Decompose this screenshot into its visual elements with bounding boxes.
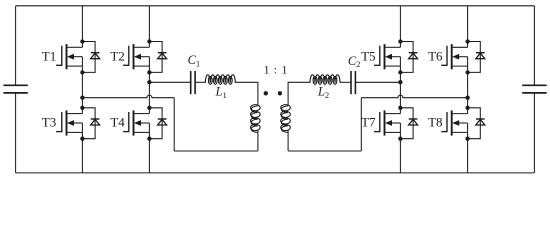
wire: leg T2/T4 middle segment	[148, 72, 150, 107]
wire: right DC-link bottom lead	[533, 93, 535, 173]
node: T6 source junction	[465, 70, 469, 74]
body diode of T5	[400, 42, 417, 73]
wire: leg T6/T8 upper segment	[467, 6, 469, 42]
body diode of T2	[149, 42, 166, 73]
capacitor C1	[191, 71, 195, 94]
wire: left DC-link top lead	[15, 6, 17, 85]
node: primary polarity dot	[264, 91, 268, 95]
wire: jog to right leg2 midpoint (hop over leg)	[361, 95, 467, 98]
transistor T8 (n-MOSFET)	[441, 108, 467, 139]
label 1:1 turns ratio	[264, 62, 288, 76]
node: T5 drain junction	[398, 39, 402, 43]
node: T4 drain junction	[147, 106, 151, 110]
transistor T3 (n-MOSFET)	[56, 108, 82, 139]
svg-text:T3: T3	[42, 115, 56, 130]
wire: right vertical jog up	[360, 98, 362, 151]
node: T7 drain junction	[398, 106, 402, 110]
inductor L1	[205, 75, 235, 85]
wire: leg T1/T3 upper segment	[81, 6, 83, 42]
svg-text:T5: T5	[361, 48, 375, 63]
body diode of T8	[468, 108, 485, 139]
svg-text:T6: T6	[428, 48, 443, 63]
svg-text:T7: T7	[361, 115, 376, 130]
node: left bridge leg1 midpoint	[80, 96, 84, 100]
body diode of T6	[468, 42, 485, 73]
svg-text::: :	[274, 62, 277, 76]
transistor T4 (n-MOSFET)	[123, 108, 149, 139]
wire: C2 to right bridge leg	[355, 81, 400, 83]
wire: left DC-link bottom lead	[15, 93, 17, 173]
node: T8 source junction	[465, 137, 469, 141]
body diode of T1	[82, 42, 99, 73]
svg-text:T8: T8	[428, 115, 442, 130]
body diode of T7	[400, 108, 417, 139]
node: T4 source junction	[147, 137, 151, 141]
svg-text:T2: T2	[110, 48, 124, 63]
wire: leg T5/T7 upper segment	[399, 6, 401, 42]
wire: leg T1/T3 middle segment	[81, 72, 83, 107]
wire: right DC-link top lead	[533, 6, 535, 85]
inductor L2	[310, 75, 340, 85]
node: T1 source junction	[80, 70, 84, 74]
transformer secondary winding	[281, 105, 291, 133]
wire: leg T2/T4 upper segment	[148, 6, 150, 42]
capacitor Cdc1 (left DC-link)	[3, 85, 27, 93]
node: T2 drain junction	[147, 39, 151, 43]
wire: leg T6/T8 middle segment	[467, 72, 469, 107]
svg-text:T4: T4	[110, 115, 125, 130]
node: T3 source junction	[80, 137, 84, 141]
wire: leg T6/T8 lower segment	[467, 139, 469, 173]
wire: leg T1/T3 lower segment	[81, 139, 83, 173]
wire: secondary top lead	[288, 82, 310, 105]
node: T7 source junction	[398, 137, 402, 141]
wire: L1 to transformer primary top	[235, 82, 258, 105]
body diode of T3	[82, 108, 99, 139]
wire: leg T5/T7 lower segment	[399, 139, 401, 173]
transistor T5 (n-MOSFET)	[374, 42, 400, 73]
node: right bridge leg2 midpoint	[465, 96, 469, 100]
transistor T1 (n-MOSFET)	[56, 42, 82, 73]
node: secondary polarity dot	[278, 91, 282, 95]
wire: leg T5/T7 middle segment	[399, 72, 401, 107]
node: T3 drain junction	[80, 106, 84, 110]
wire: jog to transformer primary bottom	[174, 150, 258, 152]
wire: secondary bottom lead	[287, 130, 289, 151]
wire: C1 to L1	[195, 81, 205, 83]
node: T1 drain junction	[80, 39, 84, 43]
transistor T2 (n-MOSFET)	[123, 42, 149, 73]
wire: transformer secondary bottom to jog	[288, 150, 361, 152]
node: left bridge leg2 output	[147, 80, 151, 84]
svg-text:1: 1	[264, 63, 270, 77]
wire: leg2 output to C1	[149, 81, 190, 83]
wire: L2 to C2	[340, 81, 351, 83]
capacitor Cdc2 (right DC-link)	[522, 85, 546, 93]
svg-text:1: 1	[281, 63, 287, 77]
wire: left leg1 midpoint to jog (hop over leg2)	[82, 95, 174, 98]
svg-text:T1: T1	[42, 48, 56, 63]
transistor T6 (n-MOSFET)	[441, 42, 467, 73]
body diode of T4	[149, 108, 166, 139]
wire: primary bottom lead	[257, 130, 259, 151]
node: T6 drain junction	[465, 39, 469, 43]
node: T2 source junction	[147, 70, 151, 74]
node: T5 source junction	[398, 70, 402, 74]
wire: left vertical jog down	[173, 98, 175, 151]
capacitor C2	[351, 71, 355, 94]
node: T8 drain junction	[465, 106, 469, 110]
transistor T7 (n-MOSFET)	[374, 108, 400, 139]
wire: negative DC bus (bottom rail)	[16, 172, 535, 174]
wire: leg T2/T4 lower segment	[148, 139, 150, 173]
node: right bridge leg1 input	[398, 80, 402, 84]
transformer primary winding	[251, 105, 261, 133]
wire: positive DC bus (top rail)	[16, 5, 535, 7]
